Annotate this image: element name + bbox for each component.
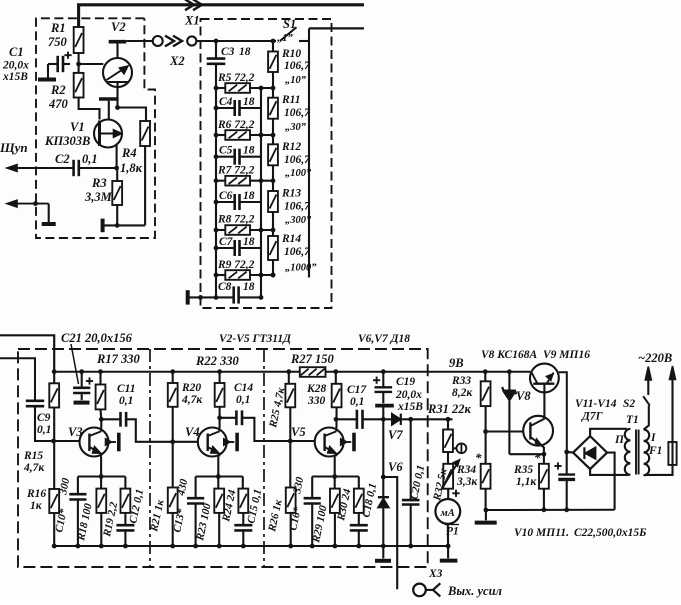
svg-text:1,8к: 1,8к [120, 161, 143, 175]
resistor R25 [286, 369, 291, 374]
amplifier section dashed enclosure [18, 349, 428, 567]
svg-text:X3: X3 [428, 568, 443, 580]
wire collector to C17 [336, 418, 357, 420]
svg-text:R13: R13 [281, 188, 301, 200]
wire V3 collector [100, 419, 102, 427]
svg-text:C11: C11 [117, 383, 136, 395]
transformer T1 core [635, 430, 637, 475]
node input-R10 [271, 39, 276, 44]
switch S1 contact tick [299, 40, 309, 42]
transistor V3 [80, 428, 109, 457]
transformer T1 winding I [644, 430, 650, 476]
diode V6 branch [382, 419, 384, 496]
svg-text:0,1: 0,1 [37, 424, 51, 436]
collector bar of V2 [109, 40, 127, 44]
node V4 emitter network [216, 474, 221, 479]
resistor R13 106,7 [268, 191, 278, 212]
svg-text:С22,500,0х15Б: С22,500,0х15Б [574, 527, 646, 539]
node V4 collector [217, 415, 222, 420]
svg-text:18: 18 [243, 190, 255, 202]
ground stem and bar below R32 [485, 510, 487, 520]
wires between R10-R14 [272, 72, 274, 98]
svg-text:R1: R1 [50, 21, 66, 35]
node C20 top [408, 417, 413, 422]
svg-text:R34: R34 [456, 464, 476, 476]
bridge rectifier V11-V14 [573, 436, 607, 469]
wire junction to V2 base [79, 63, 104, 65]
resistor R16 [53, 441, 55, 489]
resistor R15 [52, 369, 57, 374]
svg-text:КП303В: КП303В [44, 134, 90, 148]
svg-text:20,0х: 20,0х [2, 60, 29, 72]
svg-text:V8: V8 [516, 389, 531, 403]
connector X1 chevrons [185, 0, 194, 10]
resistor R17 [98, 369, 103, 374]
ground under input stub [42, 222, 56, 226]
svg-text:Д7Г: Д7Г [581, 411, 603, 423]
svg-text:V6: V6 [388, 460, 403, 474]
wire R2 to V1 gate [79, 98, 100, 120]
svg-text:F1: F1 [648, 445, 662, 457]
svg-text:C21 20,0х156: C21 20,0х156 [61, 331, 133, 345]
svg-text:0,1: 0,1 [350, 396, 364, 408]
capacitor C19 electrolytic [381, 369, 386, 374]
label V2-V5 GT311D [218, 331, 290, 344]
resistor R1 [74, 27, 84, 53]
node V3 base [51, 439, 56, 444]
svg-text:R11: R11 [281, 94, 301, 106]
second input arrow with ground stub [7, 203, 49, 205]
wire bridge bottom AC to winding II bottom [590, 469, 628, 475]
switch S2 blade [643, 396, 650, 405]
resistor R3 [116, 168, 118, 181]
divider output resistor chain R10-R14 [272, 41, 274, 52]
svg-text:Щуп: Щуп [0, 140, 28, 155]
resistor R29 [334, 477, 336, 489]
resistor R23 [217, 477, 219, 489]
svg-text:R20: R20 [181, 382, 201, 394]
node V6 ground rail [381, 544, 386, 549]
wire V10 collector to V9 base [543, 384, 545, 419]
resistor R22 [217, 369, 222, 374]
node V3 collector [99, 417, 104, 422]
probe block dashed enclosure [36, 18, 155, 238]
resistor R14 106,7 [268, 236, 278, 260]
resistor R33 [483, 369, 488, 374]
svg-text:18: 18 [243, 145, 255, 157]
svg-text:V7: V7 [388, 428, 403, 442]
wire R1 to junction [78, 53, 80, 73]
capacitor C3 [207, 57, 226, 60]
switch S1 output bus [308, 28, 310, 277]
wire V1 source down [116, 145, 118, 168]
svg-text:R15: R15 [23, 450, 43, 462]
wire V5 collector [335, 419, 337, 427]
svg-text:R10: R10 [281, 48, 301, 60]
svg-text:Т1: Т1 [626, 414, 639, 426]
svg-text:V1: V1 [70, 120, 85, 134]
attenuator dashed enclosure [201, 19, 332, 308]
wire F1 to winding I bottom [644, 465, 673, 475]
resistor R35 [543, 454, 545, 464]
wire collector to C11 [101, 418, 120, 420]
svg-text:мА: мА [440, 508, 455, 519]
svg-text:V3: V3 [68, 425, 83, 439]
resistor R19 [124, 477, 126, 489]
svg-text:C4: C4 [219, 96, 233, 108]
svg-text:„10”: „10” [285, 75, 307, 86]
resistor R27 series in rail [300, 367, 326, 377]
capacitor C16 [311, 477, 313, 498]
svg-text:„100”: „100” [285, 168, 312, 179]
svg-text:„1000”: „1000” [285, 263, 317, 274]
svg-text:20,0х: 20,0х [395, 389, 422, 401]
svg-text:8,2к: 8,2к [452, 387, 473, 399]
svg-text:R8 72,2: R8 72,2 [217, 214, 255, 226]
wire V4 collector [219, 418, 221, 428]
svg-text:0,1: 0,1 [82, 152, 98, 166]
ground under C1 [38, 78, 56, 82]
svg-text:9В: 9В [449, 356, 464, 370]
svg-text:C8: C8 [218, 281, 232, 293]
svg-text:C7: C7 [219, 236, 234, 248]
svg-text:750: 750 [48, 35, 68, 49]
mains line right [671, 368, 673, 442]
resistor R26 [289, 441, 291, 488]
node detector [381, 417, 386, 422]
wire R4 to bottom [144, 146, 146, 225]
capacitor C9 [26, 399, 44, 402]
svg-text:C19: C19 [396, 376, 415, 388]
wire to V10 base [486, 430, 524, 432]
svg-text:3,3к: 3,3к [456, 476, 478, 488]
wire C1 to ground [47, 64, 49, 78]
svg-text:P1: P1 [446, 526, 459, 538]
wire V10 emitter [541, 445, 544, 454]
node R35 top [542, 452, 547, 457]
svg-text:1к: 1к [30, 500, 43, 512]
node V5 base [288, 439, 293, 444]
emitter network wire stage1 [78, 475, 126, 477]
node V6 takeoff [381, 475, 386, 480]
capacitor C2 with input arrow [7, 167, 74, 169]
svg-text:V11-V14: V11-V14 [575, 398, 617, 410]
stage divider 2 [263, 349, 265, 567]
svg-text:„30”: „30” [285, 122, 307, 133]
capacitor C12 [116, 524, 134, 527]
resistor R21 [172, 442, 174, 488]
capacitor C20 [410, 419, 412, 499]
capacitor C10 [77, 477, 79, 494]
svg-text:*: * [475, 450, 482, 465]
capacitor C17 [356, 410, 359, 429]
svg-text:18: 18 [243, 236, 255, 248]
resistor R30 [358, 477, 360, 489]
wire V5 emitter [334, 456, 336, 476]
transistor V1 FET [94, 120, 122, 148]
node V5 collector [334, 417, 339, 422]
diode V7 [383, 418, 392, 420]
supply rail 9V [54, 371, 300, 373]
svg-text:„300”: „300” [285, 215, 312, 226]
transistor V4 [198, 428, 227, 457]
shunt capacitor C5 [216, 156, 235, 158]
svg-text:470: 470 [48, 97, 69, 111]
capacitor C13 [195, 477, 197, 498]
transistor V5 [315, 428, 344, 457]
resistor R10 106,7 [268, 52, 278, 73]
svg-text:V9 МП16: V9 МП16 [543, 349, 590, 361]
capacitor C11 [119, 412, 122, 427]
ground rail of amplifier [54, 545, 449, 547]
shunt capacitor C6 [216, 201, 235, 203]
wire X2 to divider input [196, 40, 276, 42]
output jack X3 [413, 584, 426, 597]
node raw DC plus [564, 450, 569, 455]
node V5 emitter network [332, 474, 337, 479]
wire top rail from R1 to X1 [79, 5, 364, 27]
svg-text:V2: V2 [111, 20, 126, 34]
emitter network wire stage2 [196, 475, 243, 477]
node R32 return [484, 508, 489, 513]
svg-text:S2: S2 [623, 398, 635, 410]
svg-text:4,7к: 4,7к [23, 462, 45, 474]
capacitor C8 [216, 296, 234, 298]
series resistor R6 [216, 134, 225, 136]
svg-text:~220В: ~220В [638, 351, 672, 365]
svg-text:V5: V5 [291, 425, 306, 439]
svg-text:V2-V5 ГТ311Д: V2-V5 ГТ311Д [219, 333, 292, 345]
connector X2 [153, 36, 163, 46]
wire collector to C14 [220, 417, 237, 419]
coupling wire C14 to V5 base [242, 418, 315, 441]
wire V8 to V10 emitter row [509, 453, 544, 455]
plus of meter [452, 492, 459, 494]
svg-text:R17 330: R17 330 [96, 352, 140, 366]
zener diode V8 [507, 369, 512, 374]
svg-text:X1: X1 [184, 14, 200, 28]
wire takeoff to output jack [383, 477, 397, 589]
svg-text:106,7: 106,7 [284, 60, 311, 72]
svg-text:1,1к: 1,1к [516, 476, 537, 488]
wire node to R4 [118, 108, 147, 122]
node V10 base [483, 429, 488, 434]
svg-text:R33: R33 [451, 375, 471, 387]
svg-text:C2: C2 [55, 152, 70, 166]
wire C17 to detector node [363, 418, 384, 420]
series resistor R5 [216, 87, 225, 89]
svg-text:106,7: 106,7 [284, 154, 311, 166]
resistor R11 106,7 [268, 98, 278, 119]
node V2 emitter - V1 drain [115, 105, 120, 110]
svg-text:3,3М: 3,3М [84, 190, 113, 204]
node R35 return [542, 507, 547, 512]
svg-text:х15В: х15В [397, 401, 423, 413]
svg-text:18: 18 [239, 46, 251, 58]
capacitor C14 [235, 410, 238, 425]
svg-text:R27 150: R27 150 [290, 352, 334, 366]
svg-text:18: 18 [243, 96, 255, 108]
resistor R18 [100, 477, 102, 489]
svg-text:R16: R16 [26, 488, 46, 500]
node C22 return [564, 507, 569, 512]
svg-text:C14: C14 [234, 382, 253, 394]
coupling wire C11 to V4 base [126, 419, 198, 442]
series resistor R7 [216, 180, 225, 182]
svg-text:R2: R2 [50, 83, 66, 97]
svg-text:0,1: 0,1 [236, 394, 250, 406]
wire bridge plus stub [567, 451, 573, 454]
shunt capacitor C7 [216, 247, 235, 249]
svg-text:C6: C6 [219, 190, 233, 202]
node input-C3 [214, 39, 219, 44]
svg-text:106,7: 106,7 [284, 246, 311, 258]
svg-text:П: П [614, 434, 625, 446]
svg-text:R12: R12 [281, 141, 301, 153]
capacitor C15 [234, 524, 252, 527]
transistor V9 [530, 364, 559, 393]
resistor R32 [485, 432, 487, 464]
resistor R12 106,7 [268, 144, 278, 165]
ground bar of divider [186, 290, 190, 304]
svg-text:4,7к: 4,7к [181, 394, 203, 406]
wire V9 collector to bridge plus [559, 372, 567, 452]
transformer T1 winding II [625, 429, 631, 475]
svg-text:18: 18 [243, 281, 255, 293]
mains line left [647, 369, 649, 396]
wire V3 emitter [100, 456, 102, 476]
svg-text:R7 72,2: R7 72,2 [217, 165, 255, 177]
wire bridge top AC to winding II [590, 429, 627, 436]
stage divider 1 [149, 349, 151, 567]
svg-text:V6,V7 Д18: V6,V7 Д18 [358, 333, 410, 345]
svg-text:R6 72,2: R6 72,2 [217, 119, 255, 131]
ground bar below V6 [375, 559, 391, 563]
wire bridge minus to return [607, 453, 615, 510]
node C2-R3-V1 junction [114, 166, 119, 171]
bottom wire of divider to ground [189, 296, 216, 298]
resistor R24 [242, 477, 244, 489]
transistor V2 [103, 58, 132, 87]
resistor R4 [140, 121, 150, 146]
svg-text:C1: C1 [9, 45, 24, 59]
node V4 base [170, 439, 175, 444]
capacitor C1 [48, 63, 58, 65]
svg-text:R9 72,2: R9 72,2 [217, 259, 255, 271]
pointer line C21 [71, 344, 79, 384]
svg-text:R5 72,2: R5 72,2 [217, 72, 255, 84]
svg-text:C5: C5 [219, 145, 233, 157]
svg-text:R3: R3 [91, 176, 107, 190]
resistor R34 preset [447, 452, 449, 464]
svg-text:R35: R35 [513, 464, 533, 476]
svg-text:Вых. усил: Вых. усил [447, 584, 502, 598]
wire winding I top to switch [644, 406, 649, 430]
diode V6 [378, 496, 389, 498]
preset indicator of R31 [453, 447, 457, 449]
meter P1 [447, 489, 449, 499]
wire V2 to X2 [126, 40, 152, 42]
transistor V10 [523, 416, 553, 446]
svg-text:х15В: х15В [2, 71, 28, 83]
capacitor C21 electrolytic [79, 369, 84, 374]
input wire through C9 [0, 358, 35, 400]
svg-text:106,7: 106,7 [284, 107, 311, 119]
return line of PSU [486, 509, 615, 511]
ground bar left of R3 [101, 219, 105, 233]
drain bar of V1 [99, 97, 119, 101]
svg-text:S1: S1 [283, 17, 296, 31]
shunt capacitor C4 [216, 107, 235, 109]
fuse F1 [668, 442, 676, 465]
svg-text:V8 КС168А: V8 КС168А [481, 349, 537, 361]
svg-text:R31 22к: R31 22к [427, 402, 471, 416]
svg-text:R22 330: R22 330 [195, 354, 239, 368]
vertical tie bus of cap ladder [260, 88, 262, 297]
label V6,V7 D18 [357, 331, 415, 344]
resistor R2 [74, 73, 84, 98]
resistor R28 [333, 369, 338, 374]
svg-text:„1”: „1” [277, 33, 294, 44]
resistor R20 [170, 369, 175, 374]
svg-text:X2: X2 [169, 54, 185, 68]
wire S1 output to right [309, 27, 364, 29]
ground bar below meter [447, 546, 449, 558]
left bus of divider [215, 41, 217, 58]
svg-text:I: I [650, 432, 656, 444]
svg-text:106,7: 106,7 [284, 201, 311, 213]
resistor R31 [446, 417, 451, 422]
svg-text:К28: К28 [306, 383, 327, 395]
series resistor R9 [216, 274, 225, 276]
series resistor R8 [216, 229, 225, 231]
emitter network wire stage3 [312, 475, 359, 477]
svg-text:V4: V4 [185, 425, 200, 439]
node R1-R2-C1-V2 junction [76, 62, 81, 67]
wire V4 emitter [217, 456, 219, 476]
node V3 emitter network [99, 474, 104, 479]
svg-text:330: 330 [307, 395, 326, 407]
svg-text:C17: C17 [347, 384, 367, 396]
wire detector output to R31 [411, 418, 448, 420]
svg-text:R14: R14 [281, 233, 301, 245]
supply input wire [0, 335, 54, 371]
capacitor C22 electrolytic [566, 452, 568, 474]
svg-text:V10 МП11.: V10 МП11. [514, 527, 569, 539]
svg-text:*: * [534, 450, 541, 465]
capacitor C18 [350, 524, 368, 527]
switch S1 wiper [281, 27, 297, 40]
svg-text:C3: C3 [221, 46, 235, 58]
svg-text:0,1: 0,1 [119, 395, 133, 407]
bottom wire of probe block [104, 224, 146, 226]
svg-text:R4: R4 [121, 146, 137, 160]
svg-text:C9: C9 [37, 412, 51, 424]
